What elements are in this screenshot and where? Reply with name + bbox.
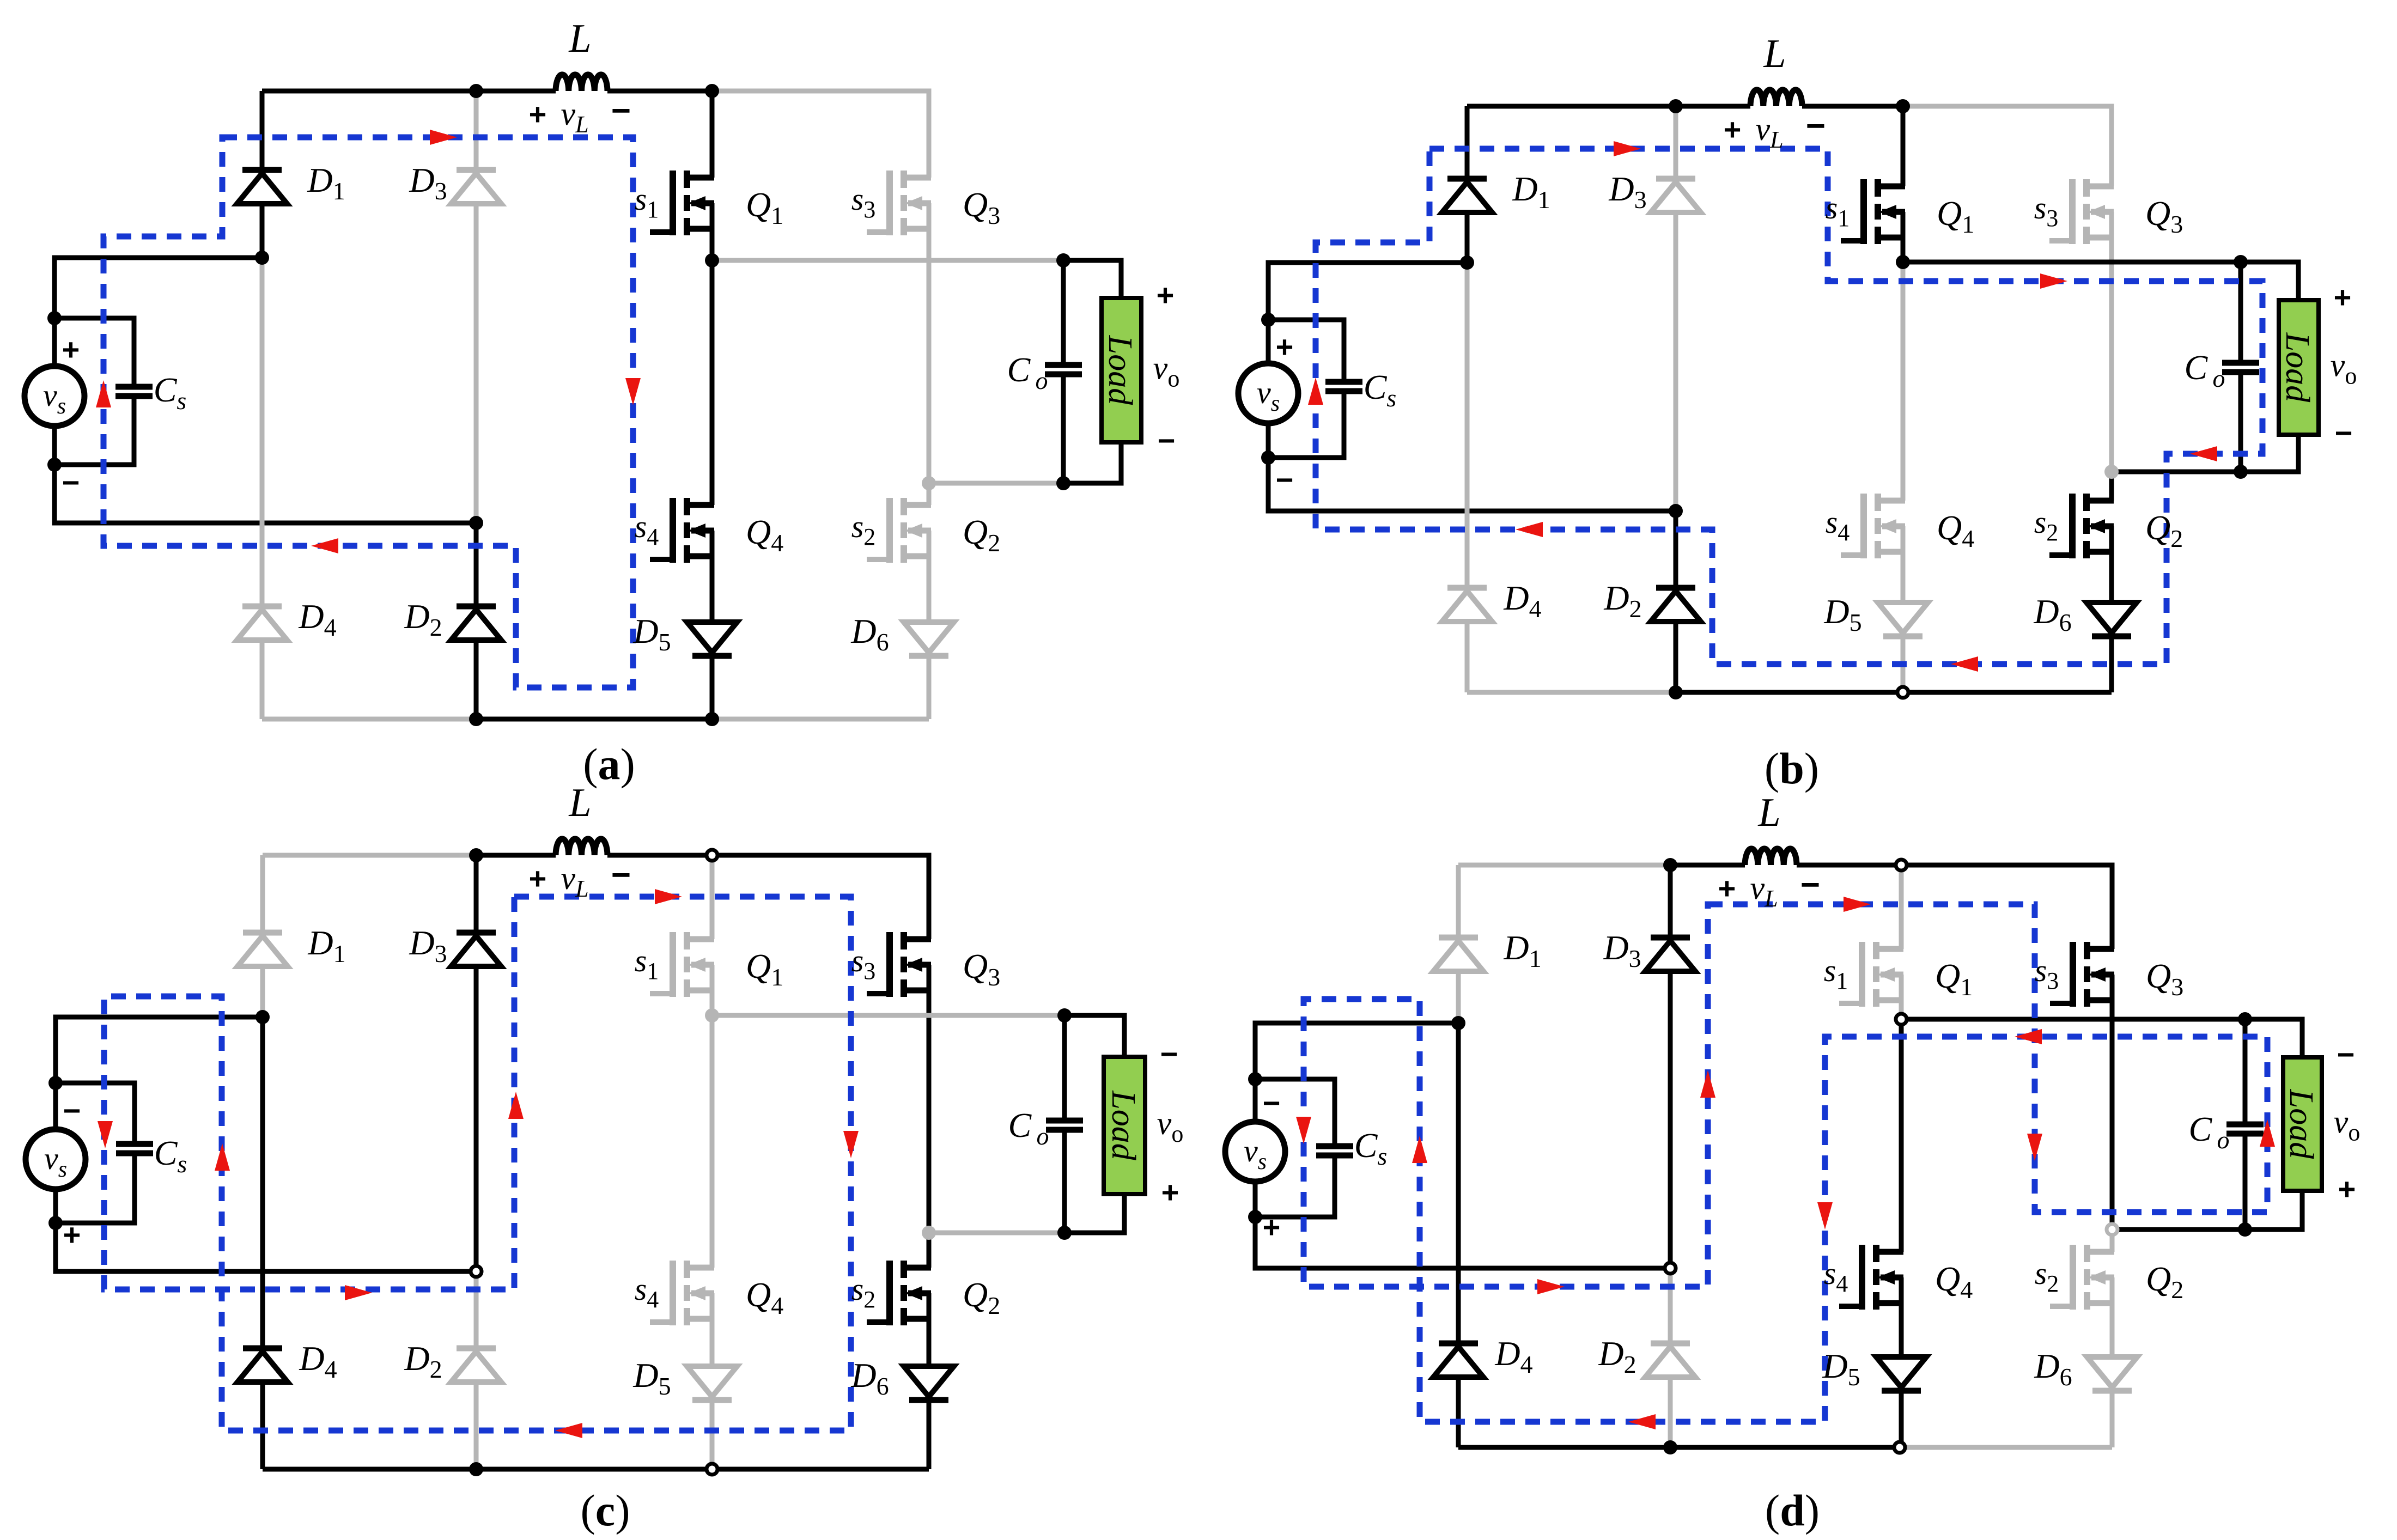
- wire D6 bottom lead (c): [927, 1400, 932, 1469]
- wire bottom rail right (d): [1901, 1445, 2112, 1450]
- wire node to Co bottom (d): [2112, 1227, 2245, 1232]
- node VS2 (d): [1248, 1210, 1262, 1224]
- node CO1 (c): [1057, 1008, 1072, 1022]
- node CO2 (c): [1057, 1226, 1072, 1240]
- wire Co bottom lead (d): [2243, 1134, 2248, 1229]
- load resistor (d): [2283, 1057, 2322, 1191]
- current arrow 3 (b): [2190, 446, 2217, 461]
- current arrow 2 (c): [843, 1131, 859, 1158]
- node B1 (c): [469, 1462, 483, 1476]
- current arrow 7 (d): [1412, 1136, 1427, 1163]
- wire D3 bottom lead (a): [474, 204, 479, 523]
- transistor Q3 (d): [2050, 942, 2114, 1007]
- diode D1 (c): [238, 933, 288, 966]
- transistor Q1 (c): [650, 932, 714, 997]
- wire D2 bottom lead (c): [474, 1382, 479, 1469]
- diode D5 (b): [1878, 602, 1928, 636]
- svg-text:L: L: [1763, 32, 1786, 76]
- current arrow 3 (d): [2260, 1119, 2275, 1147]
- wire Cs bottom branch (c): [56, 1153, 135, 1223]
- wire top rail mid (b): [1676, 104, 1750, 109]
- transistor Q2 (b): [2049, 494, 2114, 558]
- wire D2 top lead (a): [474, 523, 479, 606]
- voltage source vs (b): [1238, 363, 1298, 423]
- current path loop (c): [104, 897, 851, 1431]
- svg-text:+: +: [529, 97, 547, 131]
- wire bottom rail left (b): [1467, 690, 1676, 695]
- node M1 (b): [1460, 255, 1474, 270]
- wire node to Co top (b): [1903, 260, 2241, 265]
- diode D3 (c): [451, 933, 501, 966]
- svg-text:L: L: [568, 16, 591, 61]
- wire D3 bottom lead (d): [1668, 971, 1673, 1268]
- node QN1 (c): [705, 1008, 719, 1022]
- svg-text:Load: Load: [2283, 1089, 2320, 1159]
- wire Cs top branch (a): [54, 318, 134, 387]
- wire Co bottom to load (b): [2241, 435, 2298, 472]
- wire source bottom (c): [56, 1189, 476, 1271]
- diode D4 (b): [1442, 588, 1492, 622]
- wire Q2 source (a): [927, 531, 932, 622]
- wire source top (c): [56, 1017, 263, 1129]
- node QN2 (a): [922, 476, 936, 490]
- current arrow 9 (d): [1537, 1279, 1565, 1294]
- current arrow 6 (b): [1308, 378, 1323, 405]
- node VS1 (d): [1248, 1072, 1262, 1086]
- voltage source vs (d): [1225, 1122, 1285, 1182]
- diode D6 (a): [904, 622, 954, 656]
- diode D2 (b): [1651, 588, 1701, 622]
- svg-text:−: −: [2337, 1037, 2355, 1072]
- node M1 (a): [255, 251, 269, 265]
- wire Co bottom to load (c): [1064, 1194, 1124, 1233]
- transistor Q4 (c): [650, 1261, 714, 1325]
- wire D3 top lead (c): [474, 855, 479, 933]
- wire D2 bottom lead (d): [1668, 1377, 1673, 1447]
- wire source top (b): [1268, 263, 1467, 363]
- panel (d) start: [1225, 790, 2360, 1535]
- wire node to Co top (a): [712, 258, 1063, 263]
- wire D4 bottom lead (b): [1465, 622, 1470, 692]
- transistor Q1 (b): [1841, 179, 1905, 244]
- node B1 (a): [469, 712, 483, 726]
- wire Q1 source (b): [1901, 212, 1906, 262]
- node B2 (c): [707, 1464, 717, 1475]
- wire node to Co top (d): [1901, 1017, 2245, 1022]
- current arrow 1 (c): [655, 889, 682, 904]
- node T2 (b): [1896, 99, 1910, 113]
- node T2 (a): [705, 84, 719, 98]
- node M2 (d): [1665, 1263, 1676, 1274]
- wire Q1 drain (b): [1901, 106, 1906, 186]
- node T1 (b): [1669, 99, 1683, 113]
- wire bottom rail right (b): [1903, 690, 2112, 695]
- current arrow 3 (a): [311, 538, 338, 553]
- wire Co bottom lead (c): [1062, 1130, 1067, 1233]
- node VS2 (b): [1261, 451, 1275, 465]
- svg-text:+: +: [1263, 1210, 1281, 1244]
- wire D1 top lead (d): [1456, 865, 1461, 938]
- transistor Q3 (c): [867, 932, 931, 997]
- wire Q4 drain (d): [1899, 1019, 1904, 1252]
- wire D3 bottom lead (c): [474, 966, 479, 1271]
- load resistor (b): [2279, 300, 2319, 435]
- wire Q2 drain (b): [2109, 472, 2114, 501]
- diode D2 (a): [451, 606, 501, 640]
- wire source top (a): [54, 258, 262, 366]
- svg-text:−: −: [1158, 423, 1176, 458]
- inductor L (c): [556, 839, 607, 855]
- current arrow 4 (d): [2015, 1029, 2042, 1044]
- wire top rail left (a): [262, 89, 476, 94]
- transistor Q3 (a): [867, 171, 931, 235]
- transistor Q2 (a): [867, 498, 931, 563]
- wire D6 bottom lead (b): [2109, 636, 2114, 692]
- wire Q2 drain (c): [927, 1233, 932, 1268]
- transistor Q4 (a): [650, 498, 714, 563]
- capacitor Cs (c): [116, 1144, 153, 1153]
- svg-text:−: −: [1800, 866, 1820, 904]
- current path loop (a): [104, 137, 633, 687]
- node B1 (b): [1669, 685, 1683, 699]
- wire top rail mid (c): [476, 853, 556, 858]
- wire Co bottom to load (a): [1063, 442, 1121, 483]
- svg-text:(c): (c): [580, 1486, 630, 1535]
- svg-text:+: +: [1161, 1175, 1179, 1209]
- svg-text:Load: Load: [1102, 335, 1139, 405]
- transistor Q3 (b): [2049, 179, 2114, 244]
- wire D2 bottom lead (a): [474, 640, 479, 719]
- wire node to Co top (c): [712, 1013, 1064, 1018]
- wire Cs top branch (b): [1268, 320, 1344, 382]
- node T2 (c): [707, 850, 717, 861]
- wire D1 bottom lead (b): [1465, 212, 1470, 263]
- wire bottom rail left (c): [263, 1467, 476, 1472]
- wire D2 top lead (d): [1668, 1268, 1673, 1343]
- wire Q3 source (b): [2109, 212, 2114, 472]
- node CO1 (b): [2234, 255, 2248, 269]
- wire D4 top lead (c): [260, 1017, 265, 1348]
- diode D4 (d): [1433, 1343, 1483, 1377]
- svg-text:(d): (d): [1765, 1486, 1820, 1535]
- svg-text:+: +: [529, 861, 547, 896]
- diode D1 (d): [1433, 938, 1483, 971]
- wire Q2 drain (a): [927, 483, 932, 505]
- diode D2 (d): [1645, 1343, 1695, 1377]
- wire Cs bottom branch (a): [54, 396, 134, 465]
- svg-text:−: −: [62, 465, 80, 500]
- wire Q4 drain (a): [710, 260, 715, 505]
- wire Q4 source (a): [710, 531, 715, 622]
- node T1 (d): [1663, 858, 1677, 872]
- wire Q1 drain (c): [710, 855, 715, 939]
- panel (b) start: [1238, 32, 2357, 793]
- current arrow 3 (c): [555, 1423, 582, 1438]
- svg-text:(b): (b): [1765, 744, 1819, 793]
- wire bottom rail left (a): [262, 717, 476, 722]
- node B2 (b): [1897, 687, 1908, 698]
- wire Q4 source (c): [710, 1293, 715, 1366]
- wire bottom rail right (c): [712, 1467, 929, 1472]
- wire D6 bottom lead (a): [927, 656, 932, 719]
- current path loop (d): [1304, 904, 2267, 1422]
- wire D3 top lead (d): [1668, 865, 1673, 938]
- current arrow 4 (a): [96, 380, 111, 407]
- wire node to Co bottom (b): [2112, 470, 2241, 474]
- wire Co top to load (c): [1064, 1015, 1124, 1057]
- wire Q2 source (c): [927, 1293, 932, 1366]
- wire top rail after L (d): [1797, 863, 1901, 868]
- diode D6 (d): [2087, 1357, 2137, 1391]
- current arrow 8 (d): [1296, 1117, 1311, 1144]
- wire bottom rail mid (d): [1670, 1445, 1901, 1450]
- diode D1 (b): [1442, 179, 1492, 212]
- wire D5 bottom lead (a): [710, 656, 715, 719]
- node B2 (d): [1894, 1442, 1905, 1453]
- diode D6 (c): [904, 1366, 954, 1400]
- svg-text:−: −: [1160, 1037, 1178, 1071]
- capacitor Cs (a): [115, 387, 153, 396]
- wire D1 bottom lead (a): [260, 204, 265, 258]
- diode D6 (b): [2086, 602, 2137, 636]
- panel (a) start: [25, 16, 1179, 789]
- node T1 (a): [469, 84, 483, 98]
- node CO1 (a): [1056, 253, 1070, 267]
- node B1 (d): [1663, 1440, 1677, 1454]
- wire source bottom (b): [1268, 423, 1676, 511]
- diode D5 (a): [687, 622, 737, 656]
- wire Q1 source (c): [710, 965, 715, 1015]
- node B2 (a): [705, 712, 719, 726]
- wire D4 top lead (b): [1465, 263, 1470, 588]
- wire D4 top lead (a): [260, 258, 265, 606]
- voltage source vs (a): [25, 366, 84, 426]
- svg-text:−: −: [2335, 416, 2353, 450]
- svg-text:Load: Load: [1105, 1090, 1142, 1160]
- current arrow 1 (b): [1614, 141, 1641, 156]
- wire D1 top lead (a): [260, 91, 265, 170]
- wire top rail right (c): [712, 855, 929, 939]
- svg-text:−: −: [1263, 1086, 1281, 1120]
- current arrow 7 (c): [508, 1092, 524, 1119]
- wire node to Co bottom (c): [929, 1231, 1064, 1235]
- current arrow 6 (c): [345, 1285, 372, 1300]
- node CO2 (b): [2234, 465, 2248, 479]
- node QN2 (b): [2104, 465, 2119, 479]
- wire bottom rail mid (b): [1676, 690, 1903, 695]
- inductor L (d): [1745, 849, 1797, 865]
- wire D1 top lead (b): [1465, 106, 1470, 179]
- node M2 (a): [469, 516, 483, 530]
- wire D5 bottom lead (d): [1899, 1391, 1904, 1447]
- node QN1 (b): [1896, 255, 1910, 269]
- wire D2 top lead (c): [474, 1271, 479, 1348]
- diode D3 (a): [451, 170, 501, 204]
- wire D3 top lead (a): [474, 91, 479, 170]
- svg-text:+: +: [63, 1218, 81, 1252]
- wire D3 top lead (b): [1674, 106, 1678, 179]
- wire D6 bottom lead (d): [2110, 1391, 2115, 1447]
- node M2 (b): [1669, 504, 1683, 518]
- node T1 (c): [469, 848, 483, 862]
- wire Co top lead (c): [1062, 1015, 1067, 1121]
- wire Q4 source (b): [1901, 526, 1906, 602]
- wire Q1 source (d): [1899, 975, 1904, 1019]
- transistor Q4 (b): [1841, 494, 1905, 558]
- wire Co top to load (b): [2241, 262, 2298, 300]
- svg-text:+: +: [2338, 1172, 2356, 1206]
- wire bottom rail right (a): [712, 717, 929, 722]
- node QN1 (a): [705, 253, 719, 267]
- current arrow 6 (d): [1628, 1414, 1656, 1429]
- wire source bottom (a): [54, 426, 476, 523]
- wire Co top lead (b): [2238, 262, 2243, 363]
- wire D1 bottom lead (d): [1456, 971, 1461, 1023]
- transistor Q1 (a): [650, 171, 714, 235]
- wire top rail right (d): [1901, 865, 2112, 949]
- wire top rail right (b): [1903, 106, 2112, 186]
- diode D3 (b): [1651, 179, 1701, 212]
- current arrow 2 (d): [2027, 1134, 2042, 1161]
- wire Co top to load (a): [1063, 260, 1121, 298]
- load resistor (a): [1102, 298, 1141, 442]
- diode D4 (a): [237, 606, 287, 640]
- wire D1 bottom lead (c): [260, 966, 265, 1017]
- wire Q3 source (a): [927, 203, 932, 483]
- svg-text:+: +: [62, 332, 80, 367]
- current arrow 2 (a): [625, 378, 641, 405]
- wire Co bottom lead (b): [2238, 372, 2243, 472]
- wire D5 bottom lead (b): [1901, 636, 1906, 692]
- wire D4 top lead (d): [1456, 1023, 1461, 1343]
- svg-text:−: −: [611, 856, 631, 894]
- wire Co top lead (a): [1061, 260, 1066, 365]
- svg-text:−: −: [1276, 462, 1294, 497]
- wire top rail after L (a): [607, 89, 712, 94]
- wire D5 bottom lead (c): [710, 1400, 715, 1469]
- node M1 (d): [1451, 1016, 1465, 1030]
- wire Cs bottom branch (d): [1255, 1155, 1335, 1217]
- wire D4 bottom lead (d): [1456, 1377, 1461, 1447]
- wire Q4 drain (b): [1901, 262, 1906, 501]
- current arrow 1 (a): [430, 130, 457, 145]
- wire Co top lead (d): [2243, 1019, 2248, 1124]
- wire top rail left (b): [1467, 104, 1676, 109]
- node VS2 (c): [48, 1216, 63, 1230]
- wire Q1 drain (a): [710, 91, 715, 178]
- wire D4 bottom lead (a): [260, 640, 265, 719]
- transistor Q4 (d): [1839, 1245, 1903, 1310]
- current arrow 5 (b): [1516, 522, 1543, 537]
- wire node to Co bottom (a): [929, 481, 1063, 486]
- capacitor Cs (b): [1325, 382, 1362, 391]
- current arrow 4 (c): [215, 1143, 230, 1171]
- panel (c) start: [26, 781, 1183, 1535]
- wire source bottom (d): [1255, 1182, 1670, 1268]
- wire Co top to load (d): [2245, 1019, 2302, 1057]
- node QN2 (c): [922, 1226, 936, 1240]
- wire bottom rail mid (c): [476, 1467, 712, 1472]
- current path loop (b): [1316, 149, 2262, 664]
- inductor L (b): [1750, 90, 1802, 106]
- svg-text:+: +: [1276, 330, 1294, 364]
- current arrow 10 (d): [1700, 1070, 1715, 1098]
- wire Q1 source (a): [710, 203, 715, 260]
- svg-text:−: −: [611, 92, 631, 130]
- svg-text:+: +: [1718, 871, 1736, 905]
- wire source top (d): [1255, 1023, 1458, 1122]
- wire D2 bottom lead (b): [1674, 622, 1678, 692]
- wire top rail after L (b): [1802, 104, 1903, 109]
- node VS1 (a): [47, 311, 62, 325]
- node VS2 (a): [47, 458, 62, 472]
- wire Q2 source (b): [2109, 526, 2114, 602]
- wire Q1 drain (d): [1899, 865, 1904, 949]
- svg-text:Load: Load: [2279, 332, 2316, 403]
- current arrow 4 (b): [1951, 656, 1978, 672]
- wire top rail mid (a): [476, 89, 556, 94]
- wire bottom rail mid (a): [476, 717, 712, 722]
- current arrow 5 (d): [1817, 1202, 1833, 1229]
- transistor Q2 (d): [2050, 1245, 2114, 1310]
- wire Q3 source (c): [927, 965, 932, 1233]
- wire bottom rail left (d): [1458, 1445, 1670, 1450]
- svg-text:+: +: [1724, 112, 1742, 147]
- node VS1 (c): [48, 1076, 63, 1090]
- wire Co bottom lead (a): [1061, 374, 1066, 483]
- capacitor Co (a): [1045, 365, 1082, 374]
- wire top rail right (a): [712, 91, 929, 178]
- wire Cs top branch (d): [1255, 1079, 1335, 1146]
- wire D4 bottom lead (c): [260, 1382, 265, 1469]
- node CO2 (d): [2238, 1222, 2252, 1237]
- capacitor Cs (d): [1316, 1146, 1353, 1155]
- wire Co bottom to load (d): [2245, 1191, 2302, 1229]
- node M1 (c): [255, 1010, 270, 1024]
- current arrow 1 (d): [1844, 897, 1871, 912]
- diode D3 (d): [1645, 938, 1695, 971]
- current arrow 5 (c): [98, 1121, 113, 1148]
- capacitor Co (c): [1046, 1121, 1083, 1130]
- diode D5 (c): [687, 1366, 737, 1400]
- node T2 (d): [1896, 860, 1907, 871]
- wire Q3 source (d): [2110, 975, 2115, 1229]
- capacitor Co (d): [2226, 1124, 2264, 1134]
- wire Q2 drain (d): [2110, 1229, 2115, 1252]
- wire D3 bottom lead (b): [1674, 212, 1678, 511]
- node QN2 (d): [2107, 1224, 2118, 1235]
- wire Cs bottom branch (b): [1268, 391, 1344, 458]
- diode D4 (c): [238, 1348, 288, 1382]
- current arrow 2 (b): [2040, 273, 2067, 289]
- wire D2 top lead (b): [1674, 511, 1678, 588]
- node QN1 (d): [1896, 1014, 1907, 1025]
- svg-text:−: −: [1806, 107, 1826, 145]
- svg-text:L: L: [568, 781, 591, 825]
- svg-text:+: +: [2334, 280, 2352, 314]
- wire Q4 source (d): [1899, 1277, 1904, 1357]
- node CO2 (a): [1056, 476, 1070, 490]
- svg-text:−: −: [63, 1093, 81, 1128]
- wire Q4 drain (c): [710, 1015, 715, 1268]
- load resistor (c): [1104, 1057, 1145, 1194]
- node VS1 (b): [1261, 313, 1275, 327]
- wire top rail left (c): [263, 853, 476, 858]
- wire Cs top branch (c): [56, 1083, 135, 1144]
- transistor Q2 (c): [867, 1261, 931, 1325]
- wire D1 top lead (c): [260, 855, 265, 933]
- capacitor Co (b): [2222, 363, 2259, 372]
